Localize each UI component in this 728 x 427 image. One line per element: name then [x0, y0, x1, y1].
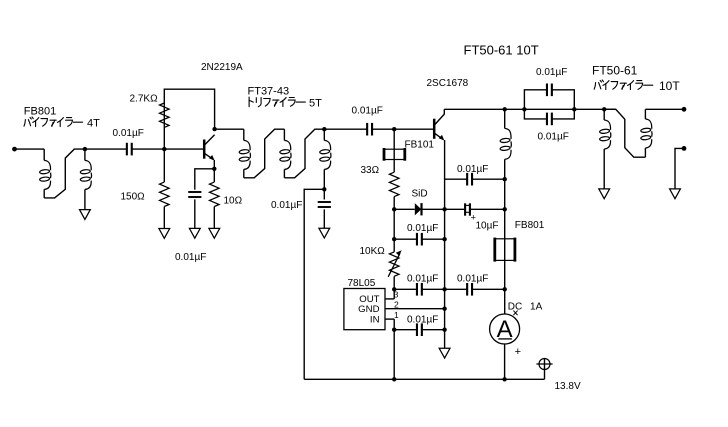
node Q2 base [392, 127, 396, 131]
node T2 W3 bottom junction [322, 187, 326, 191]
label 10ohm [224, 196, 243, 207]
svg-text:10µF: 10µF [476, 220, 499, 231]
transformer T3 winding W1 (FT50-61) [599, 109, 610, 189]
transformer T1 winding W1 (FB801) [39, 149, 50, 198]
wire Q2 collector to rail [443, 109, 445, 114]
label 10uF [476, 220, 499, 231]
transformer T1 winding W2 [80, 149, 91, 210]
svg-text:SiD: SiD [412, 188, 428, 199]
node rail right [502, 377, 506, 381]
label 2.7Kohm [130, 94, 159, 105]
wire T3 link junction to W2-bottom [604, 109, 645, 157]
wire W3 junction to supply rail [304, 189, 324, 379]
wire C4 to Q2 base [372, 128, 433, 130]
label FT50-61 10T title [464, 43, 539, 58]
label 78L05 [348, 278, 376, 289]
label FB801 output [515, 220, 545, 231]
resistor R4 33ohm body [389, 172, 399, 196]
resistor R5 10K variable body [388, 250, 401, 277]
svg-text:2: 2 [394, 300, 399, 310]
node row C left [392, 287, 396, 291]
node rail RFC top [503, 107, 507, 111]
wire bottom rail [304, 378, 544, 380]
capacitor C5 0.01uF row B [394, 233, 444, 246]
diode D1 SiD [415, 203, 445, 215]
capacitor C12 0.01uF bottom [524, 109, 574, 125]
svg-text:13.8V: 13.8V [555, 381, 581, 392]
wire diode row to R5 [393, 209, 395, 239]
svg-text:10Ω: 10Ω [224, 196, 243, 207]
svg-text:FB101: FB101 [405, 140, 435, 151]
wire RFC bottom to 10uF row [504, 179, 506, 209]
svg-text:0.01µF: 0.01µF [352, 106, 383, 117]
node 10uF right [503, 207, 507, 211]
node Q1 emitter [212, 167, 216, 171]
label DC 1A [508, 302, 543, 313]
node row B left [392, 237, 396, 241]
svg-text:IN: IN [370, 315, 380, 326]
label FT50-61 [592, 64, 638, 78]
node row D right [442, 328, 446, 332]
label C5 0.01uF [407, 223, 438, 234]
svg-text:10KΩ: 10KΩ [360, 246, 386, 257]
wire R2 to ground [163, 207, 165, 229]
inductor RFC [500, 109, 511, 179]
svg-text:0.01µF: 0.01µF [538, 132, 569, 143]
wire R4 to diode node [393, 197, 395, 210]
wire W3 bottom to C3 [323, 189, 325, 199]
capacitor C3 0.01uF [318, 202, 331, 207]
label 2N2219A [201, 62, 243, 73]
wire bead to row C [504, 260, 506, 289]
wire ammeter to rail [504, 344, 506, 379]
ground R3 [209, 228, 220, 238]
svg-text:2N2219A: 2N2219A [201, 62, 243, 73]
wire T2 to C4 [324, 128, 367, 130]
svg-text:0.01µF: 0.01µF [457, 273, 488, 284]
node row C right [503, 287, 507, 291]
ground C2 [189, 228, 200, 238]
node RFC bottom [503, 177, 507, 181]
svg-text:2.7KΩ: 2.7KΩ [130, 94, 159, 105]
ground R2 [159, 229, 170, 239]
label 33ohm [361, 165, 380, 176]
transformer T3 winding W2 [641, 109, 652, 157]
capacitor C7 0.01uF row C right [445, 283, 505, 296]
svg-text:33Ω: 33Ω [361, 165, 380, 176]
transistor Q1 2N2219A [204, 135, 214, 161]
svg-text:150Ω: 150Ω [121, 192, 146, 203]
svg-text:0.01µF: 0.01µF [407, 273, 438, 284]
wire C1 to Q1 base node [132, 148, 204, 150]
transistor Q2 2SC1678 [434, 114, 444, 140]
wire Q1 emitter down [213, 160, 215, 169]
wire emitter to C2 [195, 169, 215, 190]
label 13.8V [555, 381, 581, 392]
wire emitter to R3 [213, 169, 215, 182]
svg-text:1: 1 [394, 310, 399, 320]
capacitor C1 0.01uF [127, 143, 132, 156]
svg-text:0.01µF: 0.01µF [407, 314, 438, 325]
svg-text:3: 3 [394, 289, 399, 299]
wire row C to ammeter [504, 289, 506, 314]
svg-text:0.01µF: 0.01µF [271, 200, 302, 211]
node Q1 base [162, 147, 166, 151]
terminal 13.8V [536, 359, 552, 380]
node output ground terminal [682, 146, 687, 151]
pin 2 GND [385, 300, 445, 310]
label C8 0.01uF [407, 314, 438, 325]
label FB801 [24, 106, 56, 118]
ground T3 W1 [599, 189, 610, 199]
wire base node down to R2 [163, 149, 165, 182]
node row B right [442, 237, 446, 241]
label C1 0.01uF [113, 128, 144, 139]
wire T2 link W2-W3 [284, 129, 324, 178]
pin 1 IN [385, 310, 399, 330]
transformer T2 winding W1 (FT37-43) [239, 129, 250, 178]
label plus [515, 346, 521, 358]
node diode row mid [442, 207, 446, 211]
label meter x-mark [513, 311, 517, 316]
node rail left [392, 377, 396, 381]
svg-text:0.01µF: 0.01µF [457, 164, 488, 175]
label SiD [412, 188, 428, 199]
wire output ground [675, 148, 684, 189]
wire IN node to bottom rail [393, 330, 395, 380]
label C9 0.01uF [457, 164, 488, 175]
node output terminal [682, 107, 687, 112]
svg-text:78L05: 78L05 [348, 278, 376, 289]
ground C3 [319, 228, 330, 238]
svg-text:+: + [515, 346, 521, 358]
label OUT [359, 294, 379, 305]
svg-text:FT50-61: FT50-61 [592, 64, 638, 78]
label C12 0.01uF [538, 132, 569, 143]
svg-text:10T: 10T [659, 79, 680, 93]
label 10Kohm [360, 246, 386, 257]
node Q1 collector [212, 127, 216, 131]
capacitor C4 0.01uF [367, 123, 372, 136]
pin 3 OUT [385, 289, 399, 299]
label FT37-43 [248, 86, 290, 98]
label 150ohm [121, 192, 146, 203]
wire Q2 emitter column [444, 140, 446, 348]
wire T2 link W1-W2 [244, 129, 285, 178]
wire T1 link W1-bottom to W2-top [44, 149, 85, 198]
transformer T2 winding W3 [319, 129, 330, 189]
node diode row left [392, 207, 396, 211]
svg-text:2SC1678: 2SC1678 [427, 78, 469, 89]
svg-text:5T: 5T [309, 97, 322, 109]
wire input to T1 [15, 148, 45, 150]
label 2SC1678 [427, 78, 469, 89]
capacitor C9 0.01uF row A [445, 173, 505, 186]
svg-text:FB801: FB801 [24, 106, 56, 118]
wire base node up to R1 [163, 103, 165, 149]
svg-text:0.01µF: 0.01µF [536, 67, 567, 78]
wire 10K top lead [393, 239, 395, 252]
svg-text:OUT: OUT [359, 294, 379, 305]
label C3 0.01uF [271, 200, 302, 211]
capacitor C11 0.01uF top [524, 84, 574, 110]
wire T1 to C1 [85, 148, 127, 150]
label C7 0.01uF [457, 273, 488, 284]
wire 10K bottom lead [393, 276, 395, 289]
resistor R1 2.7K body [160, 103, 170, 127]
svg-text:GND: GND [358, 304, 379, 315]
capacitor C8 0.01uF row D [394, 323, 444, 336]
svg-text:DC 1A: DC 1A [508, 302, 543, 313]
label baifira 4T [24, 117, 100, 130]
regulator U1 78L05 box [344, 289, 385, 330]
resistor R3 10ohm body [210, 182, 220, 206]
node T3 junction [602, 107, 606, 111]
wire C2 to ground [194, 199, 196, 228]
wire R3 to ground [213, 207, 215, 229]
node J1 input terminal [12, 147, 17, 152]
node GND junction [442, 307, 446, 311]
node T1 junction [83, 147, 87, 151]
ferrite bead FB101 [384, 148, 405, 161]
ground output [670, 189, 681, 199]
label trifira 5T [249, 97, 322, 109]
label C4 0.01uF [352, 106, 383, 117]
svg-text:0.01µF: 0.01µF [113, 128, 144, 139]
transformer T2 winding W2 [280, 129, 291, 178]
wire diode node to D1 [394, 208, 415, 210]
label FB101 [405, 140, 435, 151]
node T2 output junction [322, 127, 326, 131]
label C2 0.01uF [175, 252, 206, 263]
label C6 0.01uF [407, 273, 438, 284]
svg-text:0.01µF: 0.01µF [407, 223, 438, 234]
ground T1 W2 [80, 210, 91, 220]
capacitor C6 0.01uF row C left [394, 283, 444, 296]
svg-text:FT37-43: FT37-43 [248, 86, 290, 98]
node row D left [392, 328, 396, 332]
label baifira 10T [594, 79, 680, 93]
wire base node down thru bead [393, 129, 395, 172]
wire top rail [444, 108, 616, 110]
svg-text:4T: 4T [87, 118, 100, 130]
capacitor C10 10uF electrolytic [445, 203, 505, 222]
wire Q1 collector to T2 [215, 128, 244, 130]
wire 10uF row down to bead [504, 209, 506, 239]
node cap-pair right [572, 107, 576, 111]
ammeter M1 [490, 314, 520, 344]
label GND [358, 304, 379, 315]
node cap-pair left [522, 107, 526, 111]
wire T3 W2 top to output [645, 108, 684, 110]
node row C mid [442, 287, 446, 291]
svg-text:0.01µF: 0.01µF [175, 252, 206, 263]
ferrite bead FB801 output [495, 238, 515, 262]
capacitor C2 0.01uF bypass [188, 192, 201, 197]
wire R1 top to rail [164, 89, 214, 129]
resistor R2 150ohm body [160, 182, 170, 206]
label IN [370, 315, 380, 326]
ground emitter column [439, 348, 450, 358]
svg-text:FB801: FB801 [515, 220, 545, 231]
label C11 0.01uF [536, 67, 567, 78]
svg-text:FT50-61 10T: FT50-61 10T [464, 43, 539, 58]
wire C3 to ground [323, 209, 325, 228]
